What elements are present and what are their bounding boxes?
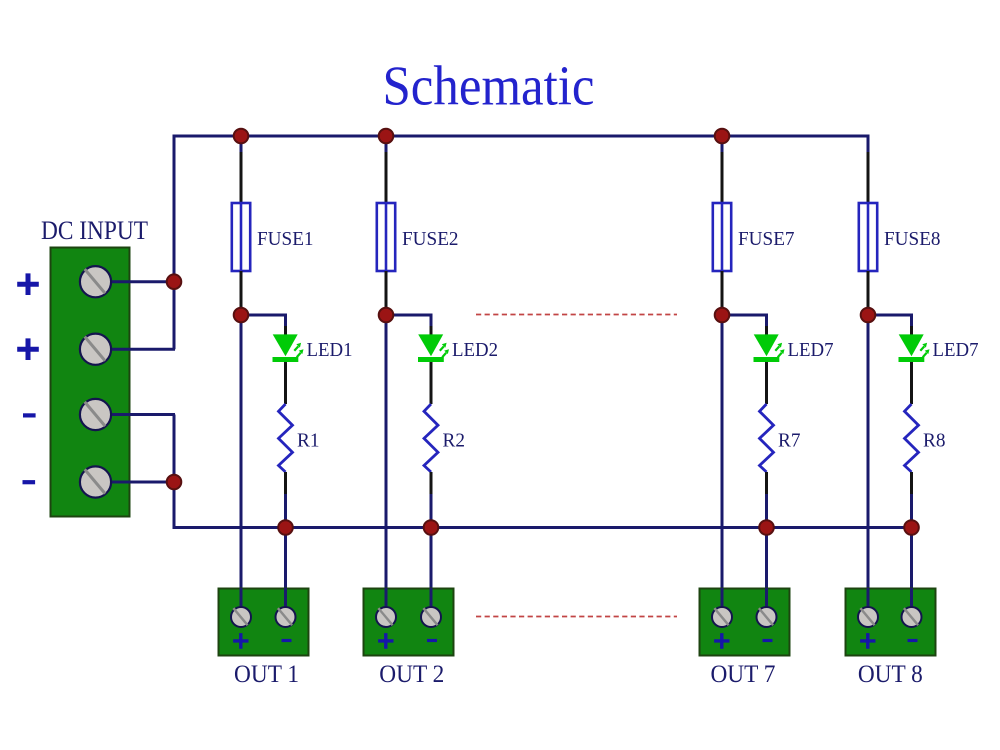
- wire: bus drop to FUSE7: [721, 136, 724, 152]
- wire: resistor to negative bus and OUT2 - terminal: [430, 494, 433, 617]
- wire: resistor to negative bus and OUT1 - terminal: [284, 494, 287, 617]
- wire: resistor to negative bus and OUT7 - terminal: [765, 494, 768, 617]
- svg-text:R8: R8: [923, 430, 946, 452]
- pin: FUSE1 bottom lead: [240, 271, 243, 307]
- polarity mark + OUT2: [378, 633, 393, 649]
- junction node: ch8 return joins negative bus: [904, 520, 919, 535]
- wire: negative feed riser to bottom bus: [173, 415, 176, 528]
- LED LED1: [273, 334, 304, 362]
- screw terminal OUT7 +: [712, 607, 732, 627]
- wire: LED branch over to resistor column ch7: [722, 315, 767, 326]
- pin: FUSE7 bottom lead: [721, 271, 724, 307]
- junction node: fuse output / LED branch ch8: [861, 308, 876, 323]
- wire: DC pin2 (+) stub: [96, 348, 175, 351]
- pin: FUSE1 top lead: [240, 152, 243, 204]
- pin: R2 bottom lead: [430, 472, 433, 494]
- pin: LED cathode to resistor lead ch7: [765, 362, 768, 404]
- polarity mark - OUT7: [763, 639, 773, 642]
- svg-text:FUSE8: FUSE8: [884, 228, 941, 250]
- wire: bus drop to FUSE2: [385, 136, 388, 152]
- polarity mark + OUT1: [233, 633, 248, 649]
- pin: LED cathode to resistor lead ch8: [910, 362, 913, 404]
- junction node: pin4 joins negative riser: [167, 475, 182, 490]
- junction node: fuse output / LED branch ch7: [715, 308, 730, 323]
- junction node: top bus tap ch7: [715, 129, 730, 144]
- wire: OUT7 + lead inside block: [721, 588, 724, 617]
- pin: R8 bottom lead: [910, 472, 913, 494]
- pin: LED7 anode lead: [910, 326, 913, 336]
- terminal block OUT7 body: [700, 589, 790, 656]
- wire: OUT2 + lead inside block: [385, 588, 388, 617]
- wire: fuse output down to OUT2 + terminal: [385, 307, 388, 617]
- svg-text:DC INPUT: DC INPUT: [41, 216, 148, 245]
- wire: OUT2 - lead inside block: [430, 588, 433, 617]
- screw terminal OUT8 -: [902, 607, 922, 627]
- fuse FUSE2: [377, 203, 395, 271]
- continuation dashes between CH2 and CH7 (bottom): [476, 616, 677, 618]
- wire: OUT1 - lead inside block: [284, 588, 287, 617]
- screw terminal J1 pin 2: [80, 334, 111, 365]
- polarity mark - for J1 pin4: [23, 480, 36, 484]
- junction node: fuse output / LED branch ch1: [234, 308, 249, 323]
- resistor R2: [424, 404, 438, 472]
- terminal block OUT2 body: [364, 589, 454, 656]
- wire: OUT7 - lead inside block: [765, 588, 768, 617]
- wire: OUT8 - lead inside block: [910, 588, 913, 617]
- LED LED2: [418, 334, 449, 362]
- wire: OUT1 + lead inside block: [240, 588, 243, 617]
- svg-text:R2: R2: [443, 430, 466, 452]
- polarity mark + OUT7: [714, 633, 729, 649]
- svg-text:FUSE1: FUSE1: [257, 228, 314, 250]
- svg-text:OUT 7: OUT 7: [710, 661, 775, 688]
- svg-text:LED7: LED7: [933, 339, 979, 361]
- svg-text:LED1: LED1: [307, 339, 353, 361]
- svg-text:LED7: LED7: [788, 339, 834, 361]
- screw terminal OUT1 +: [231, 607, 251, 627]
- junction node: pin1 feed joins positive riser: [167, 274, 182, 289]
- wire: LED branch over to resistor column ch2: [386, 315, 431, 326]
- pin: FUSE2 bottom lead: [385, 271, 388, 307]
- screw terminal OUT2 +: [376, 607, 396, 627]
- wire: DC pin4 (-) stub: [96, 481, 175, 484]
- screw terminal J1 pin 4: [80, 466, 111, 497]
- LED LED7: [899, 334, 930, 362]
- screw terminal J1 pin 1: [80, 266, 111, 297]
- svg-text:OUT 1: OUT 1: [234, 661, 299, 688]
- wire: bottom negative bus: [173, 526, 912, 529]
- resistor R7: [760, 404, 774, 472]
- terminal block OUT8 body: [846, 589, 936, 656]
- junction node: top bus tap ch2: [379, 129, 394, 144]
- pin: FUSE2 top lead: [385, 152, 388, 204]
- pin: LED2 anode lead: [430, 326, 433, 336]
- pin: LED cathode to resistor lead ch2: [430, 362, 433, 404]
- screw terminal OUT1 -: [276, 607, 296, 627]
- wire: LED branch over to resistor column ch1: [241, 315, 286, 326]
- junction node: ch2 return joins negative bus: [424, 520, 439, 535]
- terminal block OUT1 body: [219, 589, 309, 656]
- wire: LED branch over to resistor column ch8: [868, 315, 912, 326]
- polarity mark + for J1 pin1: [17, 273, 39, 295]
- wire: top positive bus: [174, 136, 868, 349]
- LED LED7: [754, 334, 785, 362]
- svg-text:Schematic: Schematic: [383, 56, 595, 118]
- continuation dashes between CH2 and CH7 (top): [476, 314, 677, 316]
- svg-text:FUSE7: FUSE7: [738, 228, 795, 250]
- wire: DC pin1 (+) stub: [96, 280, 175, 283]
- junction node: ch1 return joins negative bus: [278, 520, 293, 535]
- wire: fuse output down to OUT8 + terminal: [867, 307, 870, 617]
- fuse FUSE1: [232, 203, 250, 271]
- pin: LED cathode to resistor lead ch1: [284, 362, 287, 404]
- svg-text:R7: R7: [778, 430, 801, 452]
- resistor R1: [279, 404, 293, 472]
- svg-text:FUSE2: FUSE2: [402, 228, 459, 250]
- wire: fuse output down to OUT1 + terminal: [240, 307, 243, 617]
- junction node: ch7 return joins negative bus: [759, 520, 774, 535]
- polarity mark + OUT8: [860, 633, 875, 649]
- svg-text:OUT 2: OUT 2: [379, 661, 444, 688]
- svg-text:OUT 8: OUT 8: [858, 661, 923, 688]
- terminal block J1 DC INPUT body: [51, 248, 130, 517]
- pin: FUSE8 top lead: [867, 152, 870, 204]
- screw terminal J1 pin 3: [80, 399, 111, 430]
- wire: bus drop to FUSE1: [240, 136, 243, 152]
- pin: LED7 anode lead: [765, 326, 768, 336]
- screw terminal OUT2 -: [421, 607, 441, 627]
- polarity mark - for J1 pin3: [23, 413, 36, 417]
- fuse FUSE8: [859, 203, 877, 271]
- wire: DC pin3 (-) stub: [96, 413, 175, 416]
- pin: FUSE8 bottom lead: [867, 271, 870, 307]
- pin: FUSE7 top lead: [721, 152, 724, 204]
- wire: OUT8 + lead inside block: [867, 588, 870, 617]
- wire: fuse output down to OUT7 + terminal: [721, 307, 724, 617]
- resistor R8: [905, 404, 919, 472]
- screw terminal OUT7 -: [757, 607, 777, 627]
- junction node: top bus tap ch1: [234, 129, 249, 144]
- wire: resistor to negative bus and OUT8 - terminal: [910, 494, 913, 617]
- svg-text:R1: R1: [297, 430, 320, 452]
- polarity mark - OUT1: [282, 639, 292, 642]
- screw terminal OUT8 +: [858, 607, 878, 627]
- fuse FUSE7: [713, 203, 731, 271]
- polarity mark - OUT2: [427, 639, 437, 642]
- pin: R1 bottom lead: [284, 472, 287, 494]
- svg-text:LED2: LED2: [452, 339, 498, 361]
- junction node: fuse output / LED branch ch2: [379, 308, 394, 323]
- polarity mark + for J1 pin2: [17, 338, 39, 360]
- polarity mark - OUT8: [908, 639, 918, 642]
- pin: R7 bottom lead: [765, 472, 768, 494]
- pin: LED1 anode lead: [284, 326, 287, 336]
